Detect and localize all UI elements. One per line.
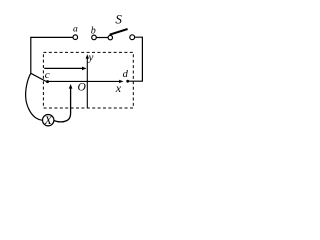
wire right side from contact down to node d — [129, 37, 143, 81]
beam arrow horizontal at left — [44, 67, 82, 69]
svg-text:x: x — [115, 81, 122, 95]
svg-text:S: S — [115, 12, 122, 27]
svg-text:c: c — [45, 69, 50, 81]
terminal a circle — [73, 35, 78, 40]
wire left vertical — [30, 37, 32, 74]
svg-text:b: b — [91, 25, 96, 36]
wire b to switch pivot — [96, 37, 108, 39]
wire slant junction to node c — [31, 73, 46, 81]
switch S blade — [110, 29, 128, 35]
source lamp X1 circle — [43, 115, 54, 126]
svg-text:X: X — [44, 113, 53, 127]
svg-text:d: d — [123, 69, 129, 80]
wire curved left down to source — [26, 73, 43, 120]
wire from source up into region with hook — [54, 88, 71, 122]
switch S pivot circle — [108, 35, 112, 39]
field region dashed boundary — [43, 52, 133, 108]
node c dot — [46, 80, 49, 83]
x axis — [48, 80, 120, 82]
wire top horizontal — [31, 36, 73, 38]
svg-text:y: y — [88, 51, 94, 63]
svg-text:O: O — [77, 82, 86, 94]
terminal b circle — [92, 35, 97, 40]
switch S right contact circle — [130, 35, 135, 40]
beam arrow vertical from source — [69, 84, 73, 89]
y axis — [86, 58, 88, 108]
node d dot — [126, 80, 129, 83]
svg-text:a: a — [73, 25, 78, 35]
